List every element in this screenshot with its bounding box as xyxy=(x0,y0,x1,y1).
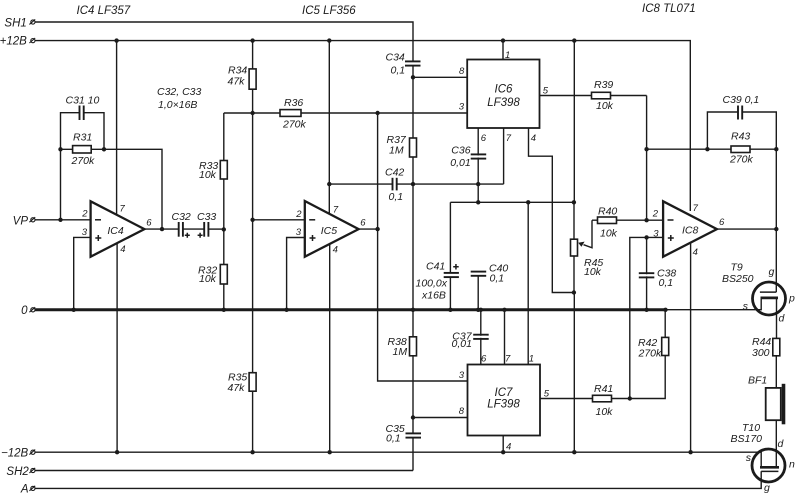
terminal SH1 xyxy=(4,18,35,30)
svg-text:10k: 10k xyxy=(199,273,217,285)
svg-text:2: 2 xyxy=(81,209,88,220)
wire 0 bus thin extension to T9 source xyxy=(666,298,762,310)
svg-text:47k: 47k xyxy=(228,382,246,394)
op-amp U3 IC8 xyxy=(652,201,725,258)
capacitor C39 xyxy=(707,94,776,149)
wire A rail to T10 gate xyxy=(35,471,761,488)
node IC6 pin1 +12B xyxy=(501,38,505,42)
capacitor C34 xyxy=(386,52,421,77)
node R31 right xyxy=(102,147,106,151)
svg-text:0: 0 xyxy=(21,305,28,317)
wire pin8 to IC6 xyxy=(413,76,467,78)
wire SH2 rail xyxy=(35,470,413,472)
wire IC8 out down to T9 gate xyxy=(775,149,777,292)
node IC7 pin4 -12B xyxy=(501,450,505,454)
capacitor C33 xyxy=(197,211,216,238)
svg-text:IC8 TL071: IC8 TL071 xyxy=(642,3,696,15)
svg-text:IC5 LF356: IC5 LF356 xyxy=(302,5,356,17)
svg-text:6: 6 xyxy=(360,218,366,229)
wire IC4 pin3 to 0 bus xyxy=(74,237,91,309)
resistor R33 xyxy=(199,113,227,230)
wire -12B rail to T10 source xyxy=(35,452,761,467)
node IC6 pin8 xyxy=(411,75,415,79)
svg-text:C36: C36 xyxy=(451,144,470,156)
svg-text:p: p xyxy=(788,293,795,305)
capacitor C41 xyxy=(416,202,459,309)
svg-text:4: 4 xyxy=(120,244,125,255)
wire IC5 pin7 to +12B xyxy=(328,41,330,215)
node R45 bottom xyxy=(572,290,576,294)
resistor R36 on wire xyxy=(224,97,378,131)
node R35 -12B xyxy=(250,450,254,454)
IC6 box LF398 xyxy=(459,50,549,144)
svg-text:0,1: 0,1 xyxy=(391,65,406,77)
svg-text:270k: 270k xyxy=(71,155,96,167)
node pin7 +12B xyxy=(114,38,118,42)
svg-text:270k: 270k xyxy=(729,154,754,166)
svg-text:VP: VP xyxy=(13,216,29,228)
wire IC7 pin1 to +12V sub-rail xyxy=(527,202,529,364)
node IC5 pin4 -12B xyxy=(328,450,332,454)
node R43 right xyxy=(774,147,778,151)
node R45 -12B xyxy=(572,450,576,454)
svg-text:270k: 270k xyxy=(282,119,307,131)
svg-text:LF398: LF398 xyxy=(487,97,520,109)
svg-text:LF398: LF398 xyxy=(487,399,520,411)
svg-text:0,1: 0,1 xyxy=(386,432,401,444)
svg-text:10k: 10k xyxy=(600,228,618,240)
node R37 bus xyxy=(411,308,415,312)
capacitor C31 xyxy=(61,95,105,220)
wire IC5 pin3 to 0 bus xyxy=(287,238,305,310)
node R45 top xyxy=(572,200,576,204)
svg-text:s: s xyxy=(743,301,749,313)
node pin3 bus xyxy=(72,308,76,312)
node IC7 pin8 xyxy=(411,415,415,419)
svg-text:C39 0,1: C39 0,1 xyxy=(723,94,760,106)
svg-text:SH2: SH2 xyxy=(6,466,29,478)
wire C32-C33 xyxy=(183,228,203,230)
transistor Q1 T9 BS250 xyxy=(722,262,795,339)
svg-text:s: s xyxy=(746,452,752,464)
node IC5 pin3 bus xyxy=(284,308,288,312)
svg-text:n: n xyxy=(789,459,795,471)
wire +12B rail xyxy=(35,41,690,211)
svg-text:0,1: 0,1 xyxy=(490,273,505,285)
svg-text:R36: R36 xyxy=(284,97,303,109)
svg-text:4: 4 xyxy=(531,133,536,144)
wire IC8 pin2 xyxy=(647,219,664,221)
node IC8 pin2 xyxy=(644,218,648,222)
transistor Q2 T10 BS170 xyxy=(731,422,796,494)
svg-text:7: 7 xyxy=(505,354,511,365)
svg-text:IC4: IC4 xyxy=(107,225,124,237)
node R37 C42 xyxy=(411,182,415,186)
wire IC7 pin4 to -12B xyxy=(502,436,504,453)
svg-text:4: 4 xyxy=(506,442,511,453)
node R36 right IC5 output xyxy=(375,111,379,115)
svg-text:2: 2 xyxy=(295,209,302,220)
svg-text:IC6: IC6 xyxy=(495,84,514,96)
resistor R32 xyxy=(198,230,227,310)
wire IC4 pin4 to -12B xyxy=(116,244,118,453)
svg-text:0,1: 0,1 xyxy=(659,277,674,289)
svg-text:6: 6 xyxy=(719,217,725,228)
wire IC6 pin1 to +12B xyxy=(502,41,504,60)
node IC7 pin1 xyxy=(526,200,530,204)
wire C34 to pin8 node xyxy=(412,66,414,138)
svg-text:10k: 10k xyxy=(596,406,614,418)
wire IC6 pin7 down xyxy=(503,128,505,184)
resistor R38 xyxy=(388,310,417,418)
node C33 R33 R32 xyxy=(222,227,226,231)
resistor R42 xyxy=(630,310,669,399)
svg-text:IC7: IC7 xyxy=(495,387,514,399)
node C37 bus xyxy=(479,308,483,312)
svg-text:BF1: BF1 xyxy=(748,375,767,387)
terminal VP xyxy=(13,216,36,228)
resistor R37 xyxy=(387,134,417,157)
node IC8 pin4 -12B xyxy=(688,450,692,454)
node IC5 output xyxy=(375,227,379,231)
node VP junction xyxy=(58,218,62,222)
node C36 bottom xyxy=(476,182,480,186)
svg-text:47k: 47k xyxy=(228,76,246,88)
wire VP to IC4 pin2 xyxy=(35,219,91,221)
wire R39 right down to IC8 pin2 xyxy=(646,96,648,221)
node IC7 pin7 bus xyxy=(502,308,506,312)
terminal A xyxy=(20,484,35,496)
node C42 rail left xyxy=(327,182,331,186)
wire IC5 output and down to IC7 pin3 xyxy=(359,228,378,230)
svg-text:C31 10: C31 10 xyxy=(66,95,100,107)
svg-text:6: 6 xyxy=(481,354,487,365)
svg-text:R39: R39 xyxy=(594,79,613,91)
svg-text:1M: 1M xyxy=(389,145,404,157)
wire R37 to C42 rail xyxy=(412,157,414,310)
svg-text:IC5: IC5 xyxy=(321,225,338,237)
svg-text:R31: R31 xyxy=(73,132,92,144)
node R42 bus end xyxy=(663,308,667,312)
terminal SH2 xyxy=(6,466,35,478)
svg-text:0,1: 0,1 xyxy=(389,191,404,203)
resistor R39 xyxy=(540,79,647,112)
wire IC8 output xyxy=(717,228,776,230)
svg-text:A: A xyxy=(20,484,29,496)
wire IC7 pin7 to bus xyxy=(504,310,506,365)
wire R31 feedback to IC4 output xyxy=(104,149,162,229)
node C40 bus xyxy=(476,308,480,312)
wire BF1 to T10 drain xyxy=(775,420,777,467)
svg-text:0,01: 0,01 xyxy=(450,157,470,169)
wire R43 row xyxy=(647,148,777,150)
svg-text:+12B: +12B xyxy=(0,36,27,48)
svg-text:g: g xyxy=(769,266,775,278)
svg-text:1: 1 xyxy=(505,50,510,61)
svg-text:4: 4 xyxy=(333,245,338,256)
node IC4 output xyxy=(160,227,164,231)
wire C33 to node xyxy=(209,228,224,230)
svg-text:10k: 10k xyxy=(596,100,614,112)
svg-text:7: 7 xyxy=(693,203,699,214)
svg-text:3: 3 xyxy=(653,229,659,240)
wire IC8 pin4 to -12B xyxy=(690,244,692,453)
svg-text:6: 6 xyxy=(146,217,152,228)
wire C42 rail xyxy=(329,183,392,185)
node R32 bus xyxy=(222,308,226,312)
capacitor C38 xyxy=(639,237,677,309)
svg-text:3: 3 xyxy=(459,102,465,113)
op-amp U1 IC4 xyxy=(81,201,152,256)
terminal 0 xyxy=(21,305,35,317)
resistor R34 xyxy=(228,41,257,113)
svg-text:x16B: x16B xyxy=(421,290,446,302)
wire IC6 pin3 xyxy=(378,112,468,114)
svg-text:7: 7 xyxy=(506,133,512,144)
wire +12V sub-rail xyxy=(450,201,574,203)
svg-text:R43: R43 xyxy=(731,131,750,143)
node R41 R42 xyxy=(628,396,632,400)
svg-text:C34: C34 xyxy=(386,52,405,64)
svg-text:BS170: BS170 xyxy=(731,433,763,445)
wire R34 node down to IC5 pin2 xyxy=(252,113,254,220)
svg-text:3: 3 xyxy=(296,227,302,238)
capacitor C42 xyxy=(385,167,404,204)
wire pin8 to IC7 xyxy=(413,417,468,419)
svg-text:C32: C32 xyxy=(172,211,191,223)
svg-text:2: 2 xyxy=(652,209,659,220)
svg-text:5: 5 xyxy=(544,388,550,399)
wire IC6 pin4 path to R45 bottom xyxy=(529,128,574,293)
svg-text:C42: C42 xyxy=(385,167,404,179)
svg-text:R41: R41 xyxy=(594,383,613,395)
svg-text:C33: C33 xyxy=(197,211,216,223)
svg-text:R40: R40 xyxy=(598,206,617,218)
svg-text:SH1: SH1 xyxy=(4,18,26,30)
svg-text:1,0×16B: 1,0×16B xyxy=(158,99,197,111)
node R34 +12B xyxy=(250,38,254,42)
resistor R1 R31 xyxy=(61,132,105,168)
svg-text:7: 7 xyxy=(333,204,339,215)
label C32 C33 values xyxy=(157,86,202,111)
svg-text:1M: 1M xyxy=(393,346,408,358)
IC7 box LF398 xyxy=(459,354,550,453)
svg-text:1: 1 xyxy=(529,354,534,365)
wire 0 bus xyxy=(35,308,666,311)
capacitor C32 xyxy=(172,211,191,238)
capacitor C35 xyxy=(386,418,422,471)
svg-text:7: 7 xyxy=(120,204,126,215)
svg-text:10k: 10k xyxy=(584,266,602,278)
svg-text:10k: 10k xyxy=(199,169,217,181)
svg-text:4: 4 xyxy=(693,247,698,258)
capacitor C36 xyxy=(450,128,486,202)
terminal -12B xyxy=(1,447,35,459)
op-amp U2 IC5 xyxy=(295,201,366,257)
node C41 bus xyxy=(448,308,452,312)
svg-text:IC8: IC8 xyxy=(682,225,699,237)
node IC8 output xyxy=(774,227,778,231)
potentiometer R45 xyxy=(571,202,604,292)
svg-text:100,0x: 100,0x xyxy=(416,278,448,290)
svg-text:3: 3 xyxy=(82,227,88,238)
wire IC5 pin2 xyxy=(253,219,305,221)
node C38 bus xyxy=(644,308,648,312)
svg-text:C32, C33: C32, C33 xyxy=(157,86,202,98)
speaker BF1 xyxy=(748,375,785,425)
resistor R43 xyxy=(729,131,754,166)
svg-text:270k: 270k xyxy=(638,348,663,360)
svg-text:300: 300 xyxy=(752,347,770,359)
capacitor C40 xyxy=(471,263,509,310)
resistor R41 xyxy=(540,383,630,418)
node C39 left xyxy=(705,147,709,151)
svg-text:8: 8 xyxy=(459,406,465,417)
svg-text:BS250: BS250 xyxy=(722,273,754,285)
wire IC4 output xyxy=(144,228,178,230)
wire SH1 rail xyxy=(35,22,413,61)
svg-text:IC4 LF357: IC4 LF357 xyxy=(77,5,131,17)
capacitor C37 xyxy=(452,310,489,365)
node pin4 -12B xyxy=(115,450,119,454)
node C40 top xyxy=(476,200,480,204)
svg-text:3: 3 xyxy=(459,370,465,381)
wire R45 bottom to -12B xyxy=(573,293,575,453)
svg-text:−12B: −12B xyxy=(1,447,29,459)
svg-text:g: g xyxy=(764,482,770,494)
node C38 top xyxy=(644,235,648,239)
wire +12B down to R45 xyxy=(573,41,575,203)
resistor R35 xyxy=(228,220,257,452)
svg-text:6: 6 xyxy=(481,133,487,144)
node IC5 pin2 xyxy=(250,218,254,222)
svg-text:8: 8 xyxy=(459,66,465,77)
svg-text:T9: T9 xyxy=(731,262,743,274)
wire IC4 pin7 to +12B xyxy=(116,41,118,215)
resistor R44 xyxy=(752,336,780,388)
node R34 R33 R36 xyxy=(250,111,254,115)
terminal +12B xyxy=(0,36,35,48)
node R31 left xyxy=(58,147,62,151)
wire IC8 pin3 xyxy=(630,237,663,398)
svg-text:0,01: 0,01 xyxy=(452,338,472,350)
node R43 left xyxy=(644,147,648,151)
node IC5 pin7 +12B xyxy=(327,38,331,42)
svg-text:C41: C41 xyxy=(426,261,445,273)
resistor R40 xyxy=(592,206,647,240)
node R45 +12B xyxy=(572,38,576,42)
wire IC5 pin4 to -12B xyxy=(329,245,331,453)
